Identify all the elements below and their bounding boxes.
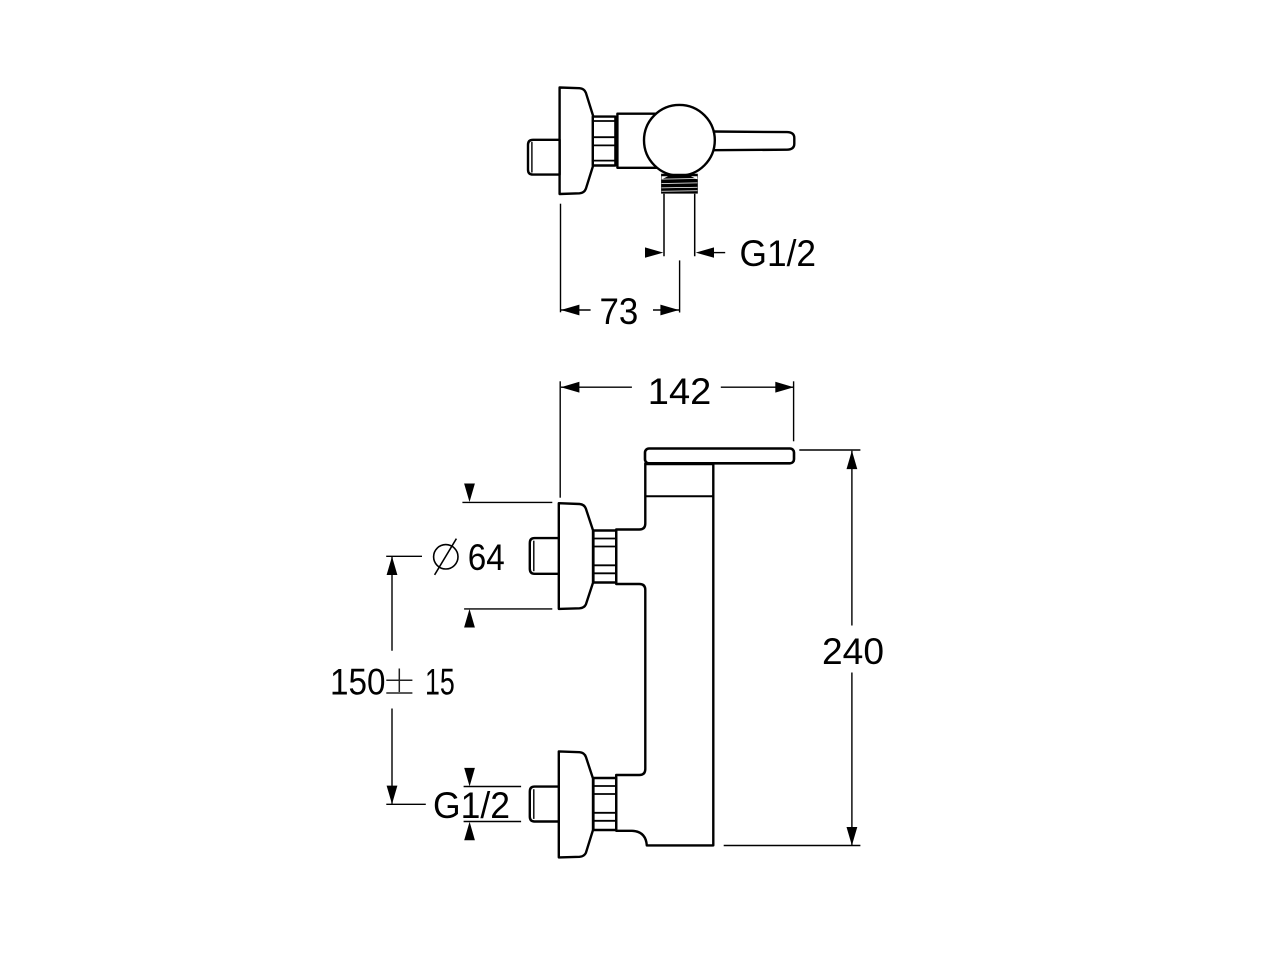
svg-text:15: 15 bbox=[425, 661, 455, 703]
svg-text:73: 73 bbox=[600, 290, 639, 332]
svg-text:240: 240 bbox=[822, 630, 884, 672]
svg-text:142: 142 bbox=[648, 370, 712, 412]
svg-text:G1/2: G1/2 bbox=[433, 784, 510, 826]
svg-text:64: 64 bbox=[468, 536, 505, 578]
svg-text:G1/2: G1/2 bbox=[740, 232, 817, 274]
svg-text:150: 150 bbox=[330, 661, 386, 703]
